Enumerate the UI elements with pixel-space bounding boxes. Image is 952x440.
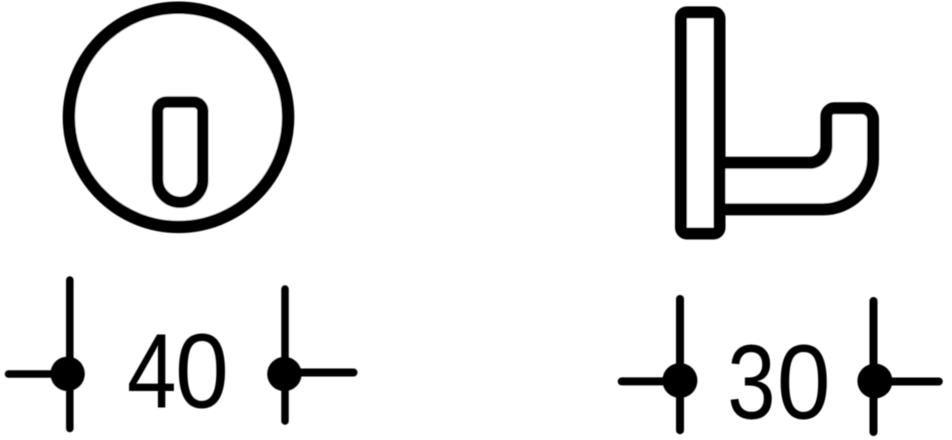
side view: hook arm	[720, 108, 874, 209]
dimension 30: left extension line	[676, 299, 684, 430]
dimension 30: right outboard stub	[875, 378, 939, 386]
dimension 40: left dot	[50, 357, 84, 391]
dimension 40: left extension line	[66, 280, 74, 429]
dimension 40: right extension line	[281, 289, 289, 421]
dimension 40: right dot	[267, 357, 301, 391]
dimension 30: left outboard stub	[622, 377, 680, 385]
dimension 30: right dot	[857, 364, 892, 399]
svg-text:4: 4	[127, 311, 177, 430]
svg-text:3: 3	[727, 322, 775, 440]
svg-text:0: 0	[175, 312, 229, 430]
svg-text:0: 0	[777, 323, 831, 440]
dimension 40: right outboard stub	[284, 369, 353, 377]
front view: oblong slot	[158, 102, 203, 202]
dimension 30: left dot	[662, 363, 697, 398]
dimension 40: left outboard stub	[9, 370, 68, 378]
front view: round rosette circle	[69, 8, 288, 227]
dimension 30: right extension line	[870, 301, 878, 432]
side view: wall plate	[681, 12, 720, 233]
